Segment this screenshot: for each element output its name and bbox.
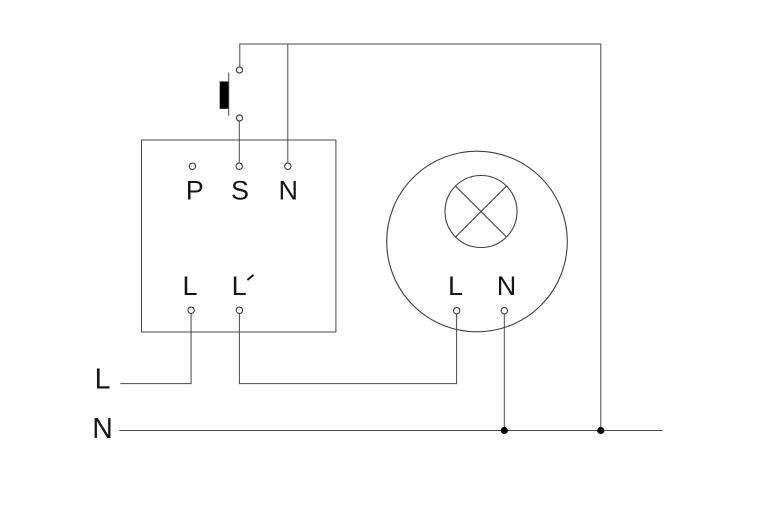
svg-text:N: N <box>497 271 517 301</box>
svg-text:L: L <box>95 363 111 395</box>
svg-text:L: L <box>182 271 197 301</box>
svg-text:N: N <box>92 413 113 445</box>
svg-text:L: L <box>448 271 463 301</box>
svg-text:L: L <box>232 271 247 301</box>
svg-text:P: P <box>186 175 204 205</box>
svg-text:N: N <box>278 175 298 205</box>
svg-text:S: S <box>231 175 249 205</box>
